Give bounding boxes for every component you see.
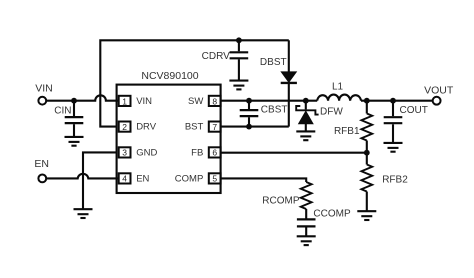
resistor RFB2 [366,153,368,165]
pin 6 box [209,147,221,157]
svg-text:L1: L1 [332,81,344,92]
wire DFW anode to ground [305,123,307,131]
wire CIN branch [73,101,75,116]
svg-text:COMP: COMP [175,173,204,184]
wire L1 to VOUT [361,100,433,102]
svg-text:VOUT: VOUT [424,84,454,96]
svg-text:7: 7 [212,122,217,132]
wire BST pin to DBST cathode [221,126,289,128]
wire VIN terminal to pin 1 with hop over DRV vertical [46,95,119,100]
svg-text:5: 5 [212,174,217,184]
wire COUT branch [392,101,394,117]
wire CDRV branch [238,40,240,51]
wire COMP pin to RCOMP [221,178,307,182]
pin 1 box [119,96,131,106]
VOUT output terminal [433,97,441,105]
pin 8 box [209,96,221,106]
ground COUT [384,143,403,152]
svg-text:CDRV: CDRV [202,51,230,62]
junction node CDRV/top rail [236,37,242,43]
wire RCOMP to CCOMP [305,209,307,219]
resistor RCOMP [301,182,312,209]
svg-text:3: 3 [122,148,127,158]
pin 2 box [119,122,131,132]
junction node COUT/VOUT [390,98,396,104]
capacitor CCOMP [297,218,316,220]
wire CBST to BST net [248,117,250,126]
wire CCOMP to ground [305,227,307,235]
svg-text:4: 4 [122,174,127,184]
ground CDRV [229,81,248,90]
svg-text:VIN: VIN [35,83,53,95]
junction node CBST/BST [246,124,252,130]
svg-text:DRV: DRV [136,122,157,133]
wire COUT to ground [392,124,394,142]
diode DFW schottky bar [296,106,318,115]
wire top rail (DRV net) [100,40,288,126]
junction node CBST/SW [246,98,252,104]
inductor L1 [317,95,361,101]
svg-text:COUT: COUT [400,105,428,116]
svg-text:BST: BST [185,122,204,133]
diode DBST cathode wire to BST [288,83,290,127]
ground RFB2 [357,211,376,220]
junction node VIN/CIN [71,98,77,104]
svg-text:CIN: CIN [54,106,71,117]
svg-text:CCOMP: CCOMP [313,209,351,220]
svg-text:VIN: VIN [136,96,152,107]
junction node L1/RFB1 [364,98,370,104]
svg-text:EN: EN [34,158,49,170]
wire GND pin net [83,152,117,208]
svg-text:RFB1: RFB1 [334,126,360,137]
svg-text:NCV890100: NCV890100 [141,70,198,82]
svg-text:6: 6 [212,148,217,158]
IC U1 NCV890100 body [117,85,221,193]
svg-text:1: 1 [122,96,127,106]
capacitor CIN [65,117,84,123]
resistor RFB1 [361,114,372,141]
wire RFB2 to ground [366,192,368,211]
diode DBST body [282,72,295,81]
junction node DFW/SW [303,98,309,104]
svg-text:CBST: CBST [261,104,288,115]
pin 5 box [209,173,221,183]
pin 7 box [209,122,221,132]
wire CDRV to ground [238,59,240,80]
diode DBST anode wire [288,40,290,72]
junction node FB divider [364,150,370,156]
pin 3 box [119,147,131,157]
svg-text:DBST: DBST [260,57,287,68]
EN input terminal [38,175,46,183]
diode DFW body [300,112,312,123]
ground CIN [65,137,84,146]
svg-text:FB: FB [191,147,203,158]
svg-text:2: 2 [122,122,127,132]
wire EN terminal to pin 4 with hop over GND vertical [46,174,119,179]
diode DFW cathode stub [305,101,307,110]
wire FB pin to divider [221,152,367,154]
wire RFB1 top [366,101,368,114]
VIN input terminal [38,97,46,105]
pin 4 box [119,173,131,183]
capacitor COUT [384,117,403,123]
ground GND pin [74,209,93,218]
capacitor CBST [240,110,259,116]
ground DFW [296,131,315,140]
svg-text:GND: GND [136,147,157,158]
svg-text:8: 8 [212,96,217,106]
wire RFB1 bottom to FB node [366,141,368,153]
wire CBST branch top [248,101,250,109]
svg-text:RCOMP: RCOMP [262,196,300,207]
capacitor CDRV [230,52,249,58]
svg-text:SW: SW [188,96,203,107]
svg-text:DFW: DFW [320,107,343,118]
wire SW to L1 [221,100,318,102]
ground CCOMP [297,236,316,245]
svg-text:RFB2: RFB2 [382,175,408,186]
svg-text:EN: EN [136,173,149,184]
wire CIN to ground [73,124,75,136]
